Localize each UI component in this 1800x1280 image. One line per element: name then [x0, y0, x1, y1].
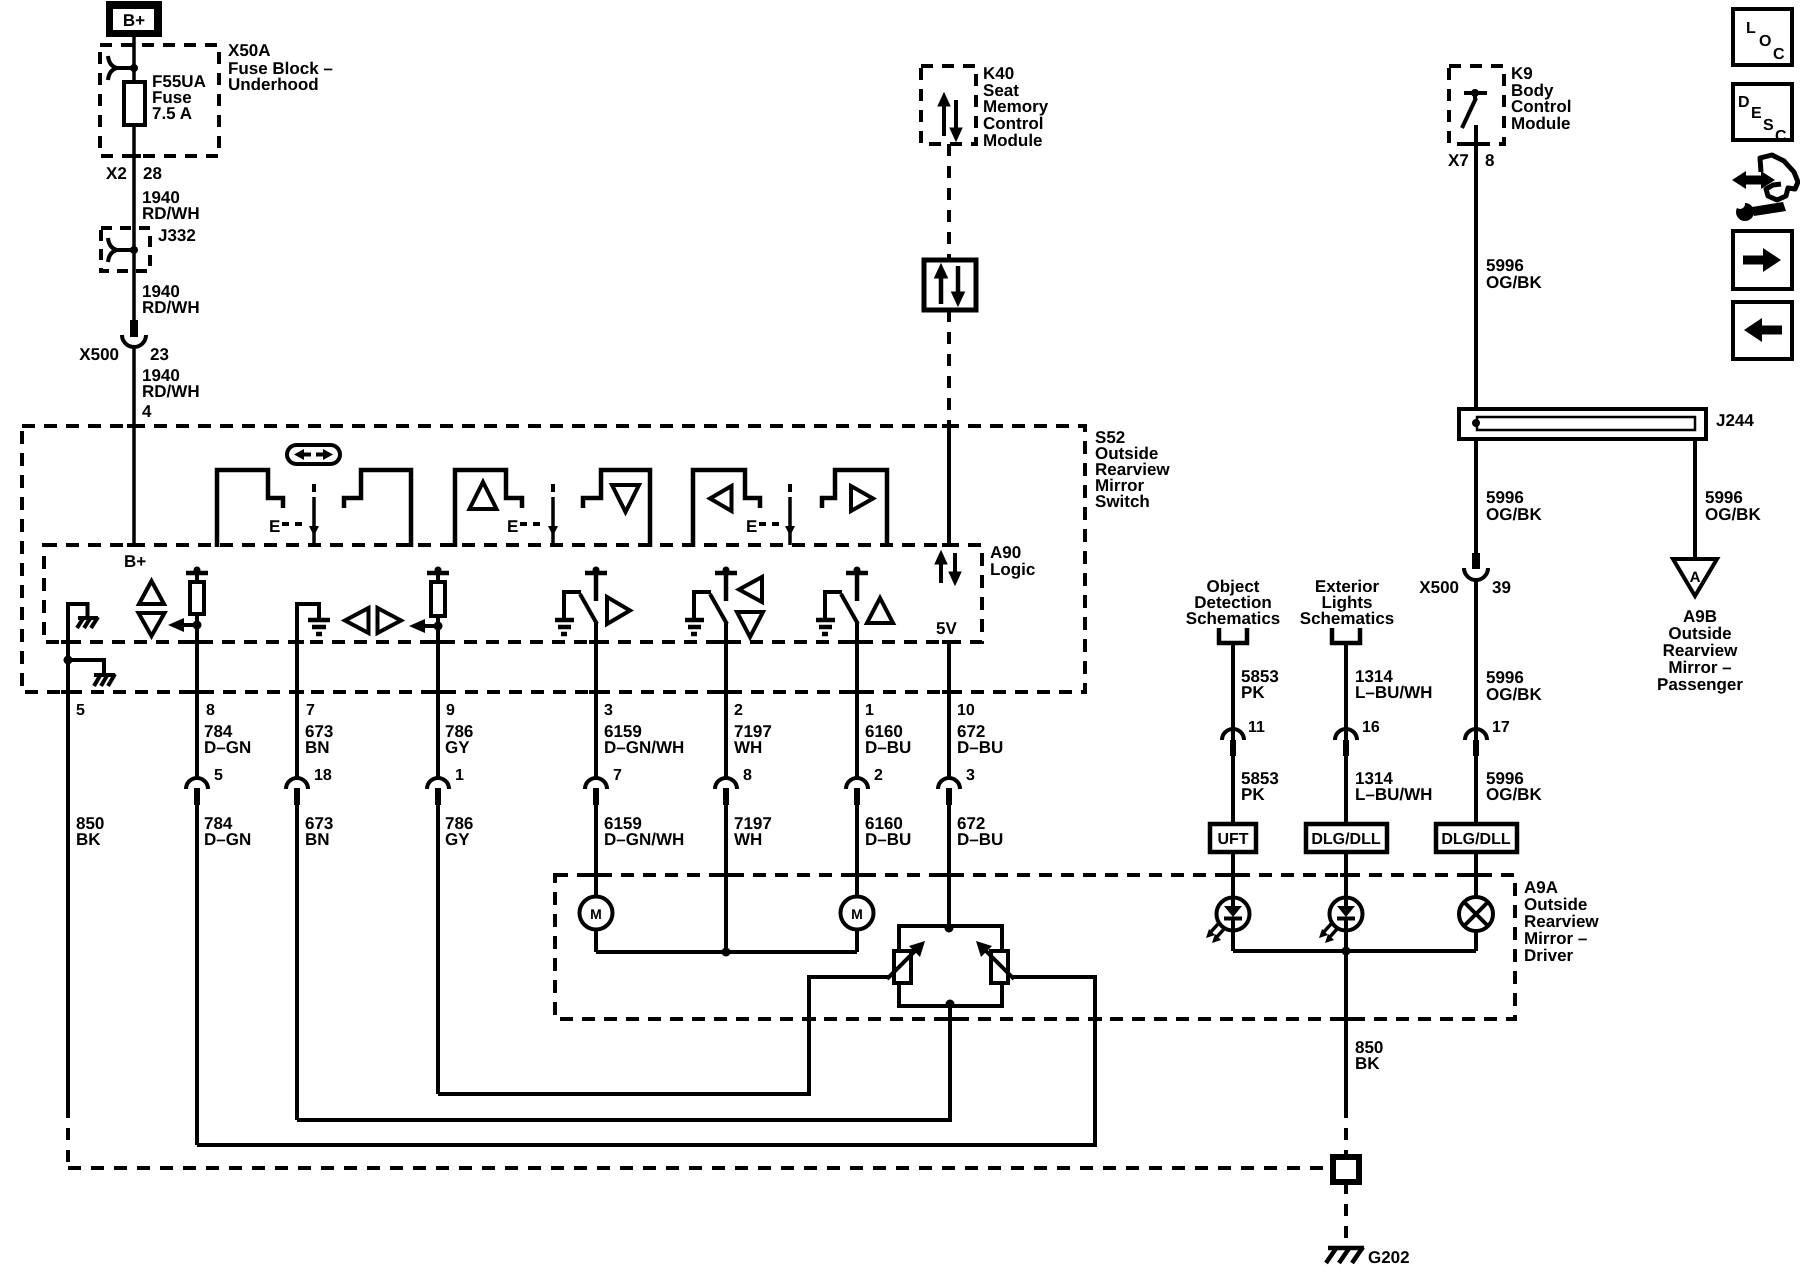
logic module A90 dashed box — [44, 545, 982, 642]
up triangle in button 3 — [470, 482, 497, 509]
fuse block X50A dashed box — [100, 45, 219, 156]
connector 16 — [1335, 729, 1357, 740]
switch S52 dashed box — [22, 426, 1085, 692]
switch button contact 4 (down) — [583, 470, 650, 547]
wire into A90 — [947, 426, 951, 545]
svg-text:7: 7 — [306, 702, 315, 719]
svg-text:2: 2 — [734, 702, 743, 719]
mirror A9A dashed box — [555, 875, 1515, 1019]
svg-text:D–GN/WH: D–GN/WH — [604, 830, 684, 849]
switch button contact 1 (select left) — [217, 470, 283, 547]
svg-text:PK: PK — [1241, 785, 1265, 804]
fuse F55UA 7.5 A — [124, 68, 206, 156]
switch button contact 5 (left) — [693, 470, 760, 547]
svg-text:S: S — [1763, 117, 1774, 134]
wire 5996 OG/BK left branch — [1476, 439, 1542, 553]
svg-text:10: 10 — [957, 702, 975, 719]
svg-text:OG/BK: OG/BK — [1705, 505, 1761, 524]
feedback pot 2 (horizontal) — [409, 567, 449, 643]
svg-text:18: 18 — [314, 767, 332, 784]
in-line connector pin 8 — [715, 778, 737, 789]
svg-text:RD/WH: RD/WH — [142, 204, 200, 223]
wire 850 BK to ground — [1346, 951, 1383, 1157]
wire pin10 down — [947, 642, 951, 692]
left/right triangles (horizontal pot) — [345, 608, 369, 633]
svg-text:J332: J332 — [158, 226, 196, 245]
svg-text:D–BU: D–BU — [865, 830, 911, 849]
svg-text:9: 9 — [446, 702, 455, 719]
svg-text:B+: B+ — [124, 552, 146, 571]
up/down arrows in K40 — [938, 93, 962, 141]
wire 850 BK (pin 5) — [66, 692, 70, 1106]
svg-text:OG/BK: OG/BK — [1486, 685, 1542, 704]
in-line connector pin 2 — [846, 778, 868, 789]
terminal symbol in fuse block — [108, 56, 138, 80]
svg-text:X2: X2 — [106, 164, 127, 183]
svg-text:PK: PK — [1241, 683, 1265, 702]
svg-text:DLG/DLL: DLG/DLL — [1311, 831, 1381, 848]
svg-text:C: C — [1773, 46, 1785, 63]
svg-text:16: 16 — [1362, 719, 1380, 736]
logic contact 2 (pin 2) — [685, 567, 763, 693]
svg-text:L–BU/WH: L–BU/WH — [1355, 683, 1432, 702]
svg-text:8: 8 — [743, 767, 752, 784]
wire 5996 OG/BK right branch — [1695, 439, 1761, 559]
ground (pin 5 branch upper) — [68, 604, 98, 628]
svg-text:GY: GY — [445, 830, 470, 849]
svg-text:X7: X7 — [1448, 151, 1469, 170]
mirror position box — [924, 260, 976, 310]
position sensor assembly — [887, 924, 1014, 1009]
in-line connector pin 3 — [938, 778, 960, 789]
svg-text:E: E — [507, 517, 518, 536]
DLG/DLL box right — [1436, 824, 1517, 852]
svg-text:7.5 A: 7.5 A — [152, 104, 192, 123]
svg-text:D–GN: D–GN — [204, 738, 251, 757]
svg-text:C: C — [1775, 128, 1787, 145]
next page button — [1733, 231, 1792, 289]
svg-text:BK: BK — [76, 830, 101, 849]
wire 672 D-BU (pin 10) — [938, 692, 1003, 926]
LED left (heated glass element) — [1206, 898, 1250, 952]
svg-text:WH: WH — [734, 830, 762, 849]
svg-text:M: M — [851, 906, 863, 922]
wire sensor left to pin 9 route — [438, 977, 888, 1094]
connector X500 pin 39 — [1419, 553, 1511, 597]
wire 786 GY (pin 9) — [427, 692, 473, 1094]
svg-text:Schematics: Schematics — [1186, 609, 1281, 628]
svg-text:X500: X500 — [79, 345, 119, 364]
dashed wire 850 BK bottom run — [66, 1106, 70, 1168]
connector 17 — [1465, 729, 1487, 740]
battery B+ terminal box — [106, 1, 162, 37]
wire 673 BN (pin 7) — [286, 692, 333, 1120]
wire 784 D-GN (pin 8) — [186, 692, 251, 1145]
svg-text:BN: BN — [305, 738, 330, 757]
svg-text:5: 5 — [214, 767, 223, 784]
linkage E pair 3 — [746, 484, 795, 545]
inline splice square — [1333, 1157, 1359, 1182]
svg-text:WH: WH — [734, 738, 762, 757]
svg-text:UFT: UFT — [1217, 831, 1248, 848]
svg-text:D–BU: D–BU — [957, 830, 1003, 849]
svg-text:D–BU: D–BU — [865, 738, 911, 757]
svg-text:O: O — [1759, 33, 1771, 50]
wire sensor bottom to pin 7 route — [297, 1006, 950, 1120]
off-page connector bracket (Exterior Lights) — [1332, 628, 1360, 643]
svg-text:1: 1 — [455, 767, 464, 784]
svg-text:Switch: Switch — [1095, 492, 1150, 511]
svg-text:J244: J244 — [1716, 411, 1754, 430]
switch symbol in K9 — [1462, 89, 1487, 128]
svg-text:5: 5 — [76, 702, 85, 719]
up/down arrows in position box — [935, 264, 965, 306]
svg-text:E: E — [269, 517, 280, 536]
module K40 dashed box — [921, 66, 976, 144]
svg-text:23: 23 — [150, 345, 169, 364]
svg-text:X50A: X50A — [228, 41, 271, 60]
svg-text:BK: BK — [1355, 1054, 1380, 1073]
wire sensor right to pin 8 route — [197, 977, 1095, 1145]
svg-text:A: A — [1690, 569, 1701, 586]
wire fuse to J332 — [132, 156, 136, 228]
wire crossing ticks on A9A top edge — [589, 873, 603, 877]
wire crossing ticks on A9A bottom edge — [802, 1017, 816, 1021]
5V logic node with up/down arrows — [935, 551, 961, 638]
logic contact 1 (pin 3) — [555, 567, 630, 693]
wire B+ to fuse block — [132, 37, 136, 67]
terminal symbol in J332 — [108, 238, 138, 262]
svg-text:RD/WH: RD/WH — [142, 382, 200, 401]
off-page connector bracket (Object Detection) — [1219, 628, 1247, 643]
wire pin5 down — [66, 612, 70, 692]
svg-text:DLG/DLL: DLG/DLL — [1441, 831, 1511, 848]
in-line connector pin 5 — [186, 778, 208, 789]
lamp symbol — [1459, 897, 1493, 951]
svg-text:Schematics: Schematics — [1300, 609, 1395, 628]
svg-text:17: 17 — [1492, 719, 1510, 736]
off-page triangle A9B — [1657, 559, 1743, 694]
svg-text:28: 28 — [143, 164, 162, 183]
svg-text:D–BU: D–BU — [957, 738, 1003, 757]
schematic navigation icon — [1732, 155, 1798, 221]
svg-text:3: 3 — [604, 702, 613, 719]
right position sensor — [991, 951, 1008, 983]
svg-text:7: 7 — [613, 767, 622, 784]
wire 7197 WH (pin 2) — [715, 692, 772, 952]
ground (pin 5 branch lower) — [64, 656, 116, 687]
svg-text:Module: Module — [983, 131, 1043, 150]
svg-text:11: 11 — [1248, 719, 1265, 736]
heater bus — [1233, 949, 1476, 953]
feedback pot 1 (vertical) — [168, 567, 208, 693]
module K9 dashed box — [1449, 66, 1504, 144]
svg-text:8: 8 — [206, 702, 215, 719]
switch button contact 2 (select right) — [344, 470, 411, 547]
tick at K9 exit — [1469, 142, 1483, 146]
svg-text:1: 1 — [865, 702, 874, 719]
svg-text:OG/BK: OG/BK — [1486, 505, 1542, 524]
ground G202 — [1326, 1247, 1410, 1267]
dashed wire to G202 — [1344, 1182, 1348, 1243]
UFT box — [1210, 824, 1256, 852]
svg-text:D–GN/WH: D–GN/WH — [604, 738, 684, 757]
svg-text:Logic: Logic — [990, 560, 1035, 579]
splice J332 dashed box — [101, 228, 150, 271]
svg-text:Passenger: Passenger — [1657, 675, 1743, 694]
svg-text:39: 39 — [1492, 578, 1511, 597]
svg-text:4: 4 — [142, 402, 152, 421]
svg-text:Driver: Driver — [1524, 946, 1574, 965]
mirror select rocker icon — [287, 445, 340, 464]
logic contact 3 (pin 1) — [816, 567, 893, 693]
LED middle — [1319, 898, 1363, 952]
wire into S52 to B+ node — [132, 426, 136, 545]
up/down mirror direction triangles — [139, 581, 164, 604]
svg-text:M: M — [590, 906, 602, 922]
svg-text:3: 3 — [966, 767, 975, 784]
motor M left — [580, 897, 613, 953]
svg-text:E: E — [1751, 105, 1762, 122]
svg-text:2: 2 — [874, 767, 883, 784]
dashed wire K40 to position box — [947, 144, 951, 260]
DLG/DLL box — [1306, 824, 1387, 852]
LOC button — [1733, 9, 1792, 65]
wire J332 to X500 — [132, 228, 136, 250]
svg-text:L–BU/WH: L–BU/WH — [1355, 785, 1432, 804]
svg-text:D–GN: D–GN — [204, 830, 251, 849]
svg-text:8: 8 — [1485, 151, 1494, 170]
in-line connector pin 1 — [427, 778, 449, 789]
connector 11 — [1222, 729, 1244, 740]
DESC button — [1733, 84, 1792, 145]
svg-text:E: E — [746, 517, 757, 536]
svg-text:OG/BK: OG/BK — [1486, 785, 1542, 804]
svg-text:BN: BN — [305, 830, 330, 849]
svg-text:RD/WH: RD/WH — [142, 298, 200, 317]
svg-text:OG/BK: OG/BK — [1486, 273, 1542, 292]
svg-text:Underhood: Underhood — [228, 75, 319, 94]
previous page button — [1733, 302, 1792, 359]
right triangle in button 6 — [851, 486, 873, 511]
in-line connector pin 7 — [585, 778, 607, 789]
wire 5996 OG/BK — [1476, 580, 1542, 778]
svg-text:5V: 5V — [936, 619, 957, 638]
connector X500 pin 23 — [79, 320, 169, 364]
linkage E pair 1 — [269, 484, 319, 545]
wire pin9 down — [436, 642, 440, 692]
splice pack J244 — [1459, 409, 1754, 439]
tick at fuse block exit — [127, 154, 141, 158]
motor common bus — [596, 950, 857, 954]
svg-text:X500: X500 — [1419, 578, 1459, 597]
svg-text:B+: B+ — [123, 11, 145, 30]
switch button contact 6 (right) — [822, 470, 887, 547]
left position sensor — [894, 951, 911, 983]
wire 5996 OG/BK to J244 — [1474, 125, 1478, 409]
dashed wire position box to S52 — [947, 310, 951, 426]
svg-text:GY: GY — [445, 738, 470, 757]
ground (pin 7 earth) — [297, 604, 330, 634]
wire X500 to S52 — [132, 347, 136, 426]
down triangle in button 4 — [612, 485, 639, 512]
svg-text:G202: G202 — [1368, 1248, 1410, 1267]
switch button contact 3 (up) — [455, 470, 522, 547]
wire 6159 D-GN/WH (pin 3) — [585, 692, 684, 897]
svg-text:D: D — [1738, 94, 1750, 111]
linkage E pair 2 — [507, 484, 558, 545]
svg-text:L: L — [1746, 20, 1756, 37]
wire pin7 down — [295, 610, 299, 692]
motor M right — [841, 897, 874, 953]
svg-text:Module: Module — [1511, 114, 1571, 133]
left triangle in button 5 — [710, 486, 732, 511]
wire 6160 D-BU (pin 1) — [846, 692, 911, 897]
in-line connector pin 18 — [286, 778, 308, 789]
